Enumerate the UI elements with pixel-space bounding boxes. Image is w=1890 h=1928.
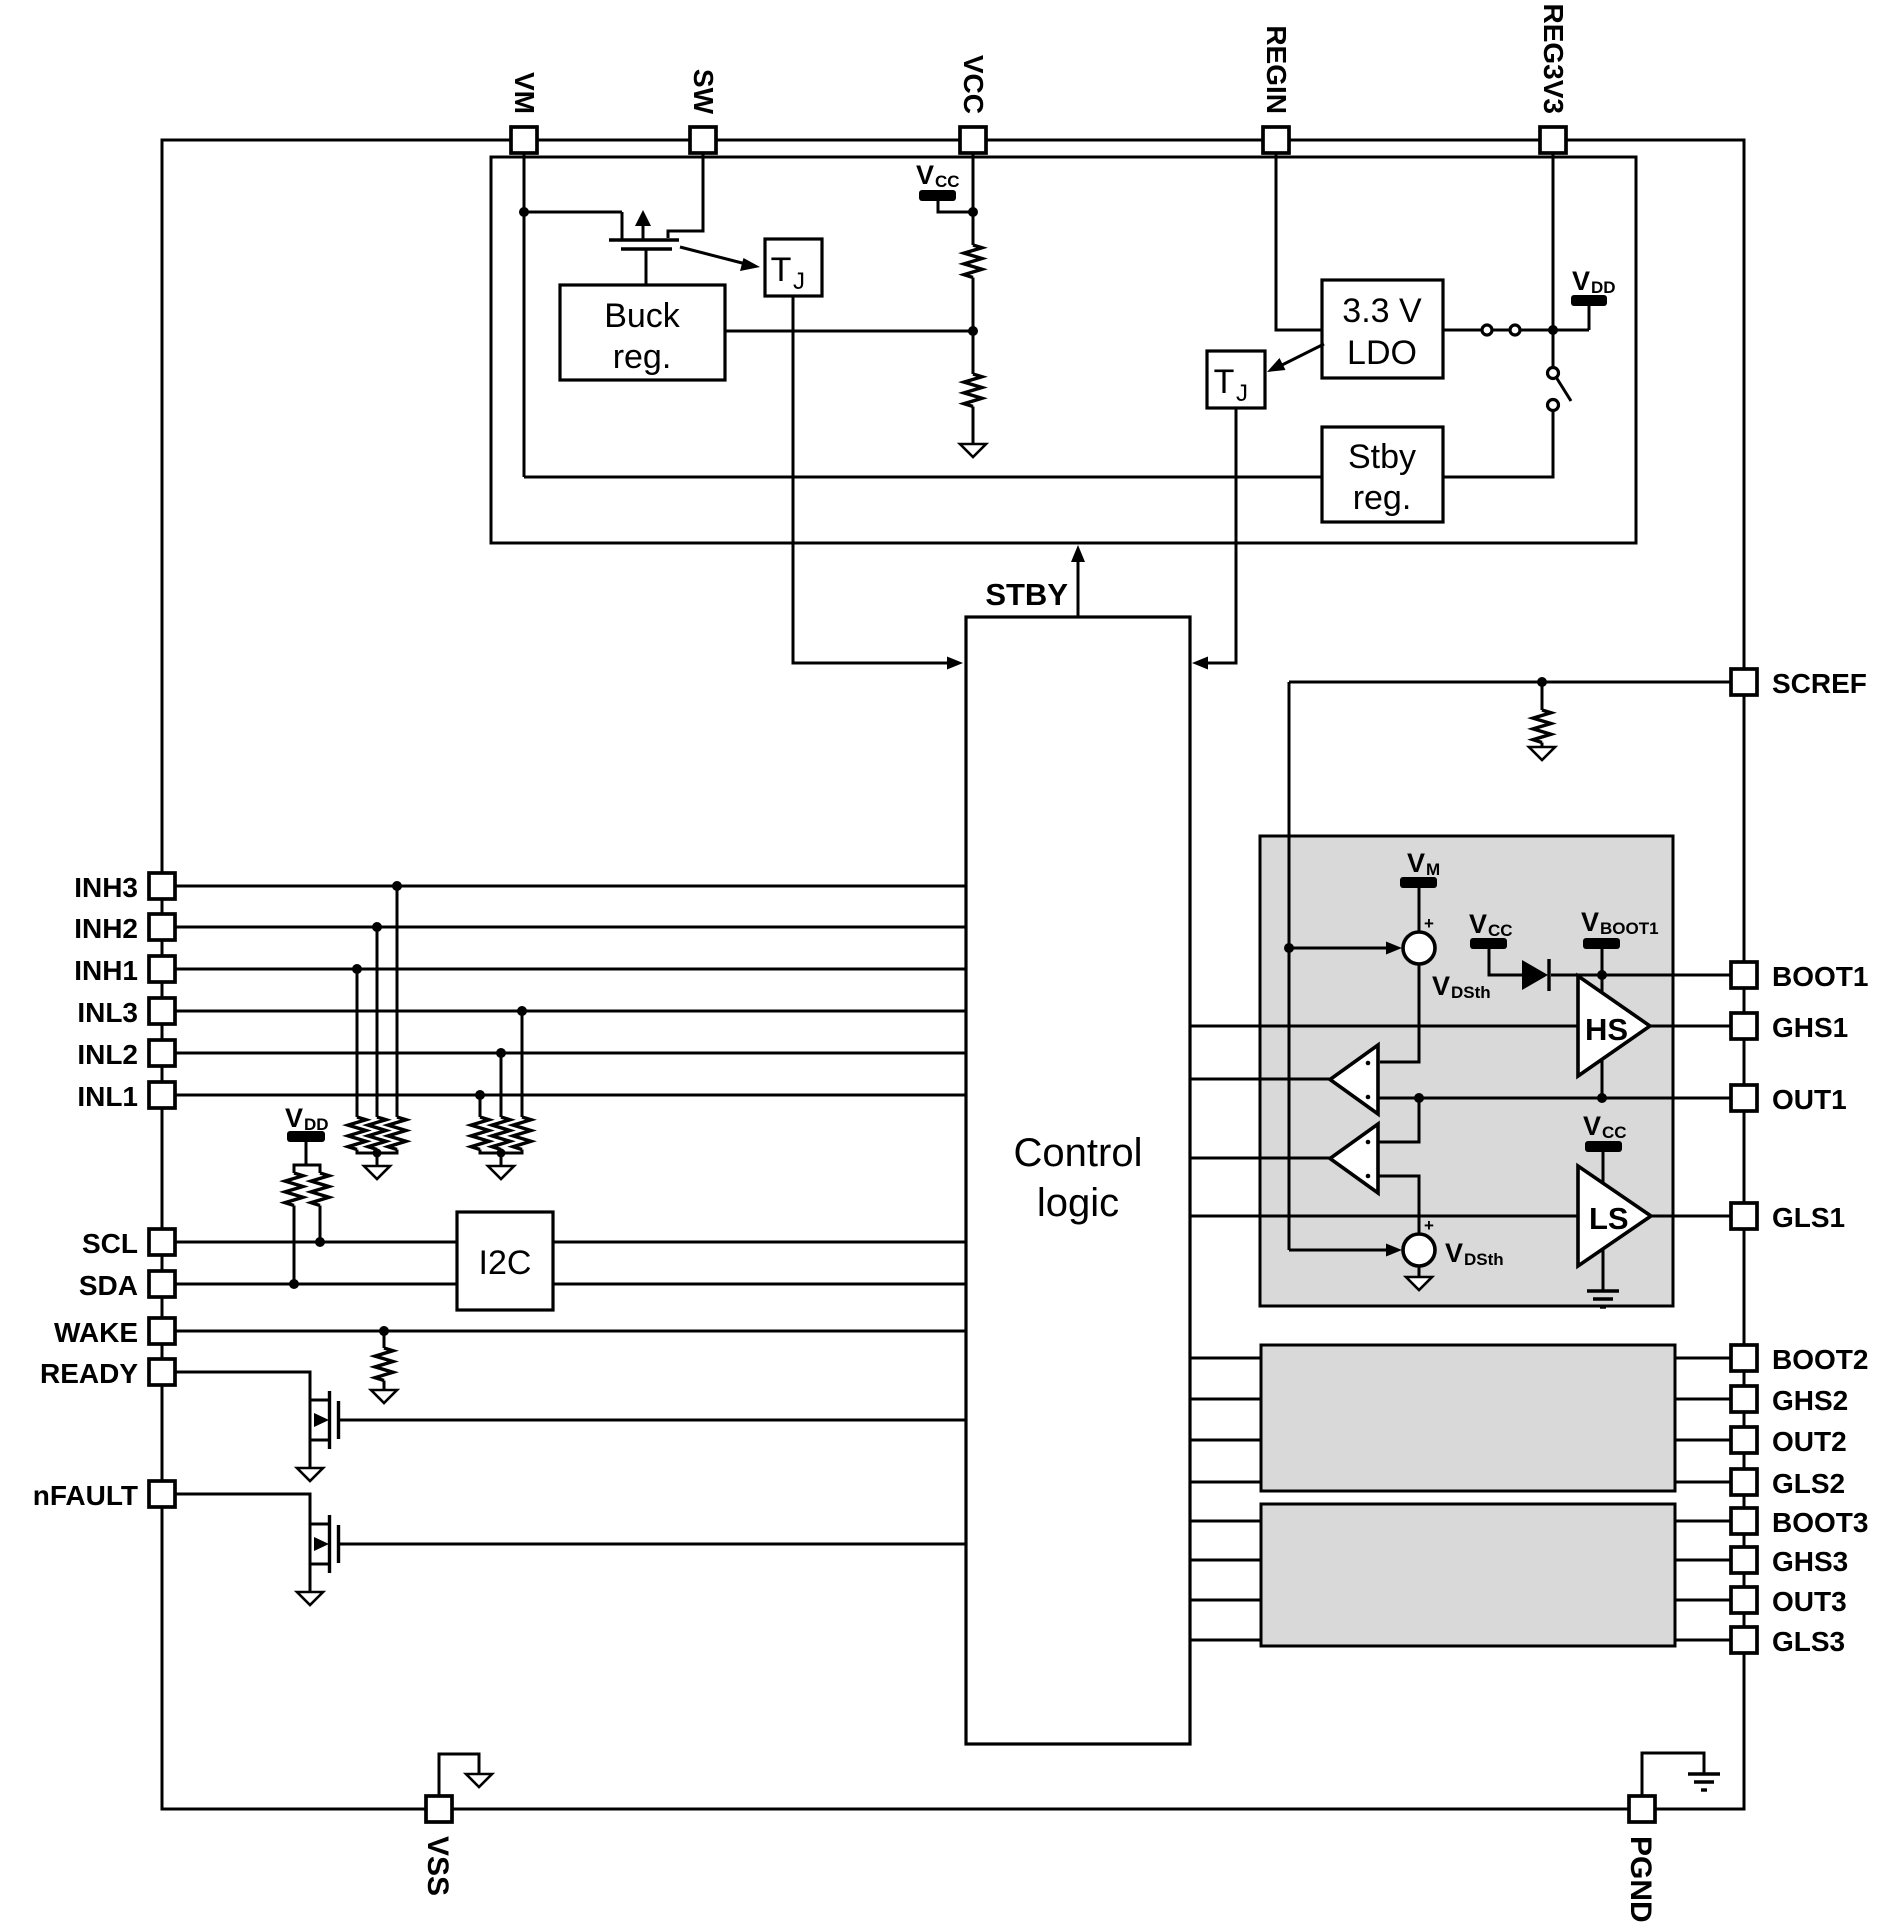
pin BOOT3: [1731, 1508, 1757, 1534]
supply tap VDD (I2C pullups): [285, 1103, 329, 1165]
pin SCREF: [1731, 669, 1757, 695]
supply tap VCC (top): [916, 160, 973, 212]
arrow buck FET to TJ1: [680, 247, 760, 271]
pin INH3: [149, 873, 175, 899]
svg-text:GLS1: GLS1: [1772, 1202, 1845, 1233]
pin REG3V3: [1540, 127, 1566, 153]
svg-text:+: +: [1424, 914, 1434, 933]
pin INH1: [149, 956, 175, 982]
svg-text:GLS2: GLS2: [1772, 1468, 1845, 1499]
wire INL1 to control logic: [175, 1094, 966, 1097]
wire INH resistor tie: [357, 1150, 397, 1154]
wire HS driver to OUT1: [1601, 1050, 1604, 1098]
node REG3V3 junction: [1548, 325, 1558, 335]
svg-text:3.3 V: 3.3 V: [1342, 292, 1422, 330]
pin SDA: [149, 1271, 175, 1297]
wire SDA line: [175, 1283, 966, 1286]
svg-text:Control: Control: [1014, 1131, 1143, 1175]
wire INL3 to control logic: [175, 1010, 966, 1013]
wire LS driver to ground: [1602, 1240, 1605, 1291]
svg-text:T: T: [771, 251, 792, 289]
pin READY: [149, 1359, 175, 1385]
wire WAKE resistor to ground: [383, 1381, 386, 1391]
wire arrow into VDSth low source: [1289, 1244, 1402, 1257]
wire INH2 to control logic: [175, 926, 966, 929]
node SDA pullup junction: [289, 1279, 299, 1289]
node INH3 pulldown tap: [392, 881, 402, 891]
svg-text:VM: VM: [509, 72, 540, 114]
wire SCREF line: [1289, 681, 1732, 684]
block Stby reg.: [1322, 427, 1443, 522]
svg-text:V: V: [285, 1103, 303, 1133]
block 3.3 V LDO: [1322, 280, 1443, 378]
wire WAKE pulldown stub: [383, 1331, 386, 1348]
resistor SCREF: [1533, 710, 1551, 743]
chip boundary: [162, 140, 1744, 1809]
svg-text:V: V: [1581, 907, 1599, 937]
connector circle B: [1510, 325, 1520, 335]
gate driver block phase 3 (gray): [1261, 1504, 1675, 1646]
supply tap VDD (top right): [1571, 266, 1616, 330]
wire HS input line: [1190, 1025, 1578, 1028]
node VCC tap junction: [968, 207, 978, 217]
wire WAKE to control logic: [175, 1330, 966, 1333]
ground READY FET: [297, 1468, 323, 1481]
supply tap VBOOT1: [1581, 907, 1659, 1000]
ground VDSth low: [1406, 1277, 1432, 1290]
wire READY FET gate to control logic: [340, 1419, 966, 1422]
svg-text:V: V: [1432, 971, 1450, 1001]
wire TJ2 to control logic (arrow): [1192, 408, 1236, 670]
pin GHS3: [1731, 1547, 1757, 1573]
wire INL2 drop: [500, 1053, 503, 1117]
driver HS: [1578, 976, 1650, 1076]
svg-text:I2C: I2C: [479, 1244, 532, 1282]
wire VDSth high to comparator1: [1380, 964, 1419, 1062]
wire SCREF sense drop: [1288, 682, 1291, 1250]
wire GHS3 line: [1190, 1559, 1732, 1562]
wire INH3 drop: [396, 886, 399, 1117]
pin OUT1: [1731, 1085, 1757, 1111]
ground INH pulldowns: [364, 1166, 390, 1179]
svg-text:SCL: SCL: [82, 1228, 138, 1259]
pin INH2: [149, 914, 175, 940]
wire divider to ground: [972, 407, 975, 445]
svg-text:Buck: Buck: [604, 297, 681, 335]
ground LS driver (earth): [1587, 1291, 1619, 1307]
wire nFAULT FET gate to control logic: [340, 1543, 966, 1546]
svg-text:nFAULT: nFAULT: [33, 1480, 138, 1511]
node VM-source junction: [519, 207, 529, 217]
ground INL pulldowns: [488, 1166, 514, 1179]
block I2C: [457, 1212, 553, 1310]
svg-text:INH2: INH2: [74, 913, 138, 944]
svg-text:V: V: [1445, 1238, 1463, 1268]
svg-text:OUT2: OUT2: [1772, 1426, 1847, 1457]
svg-text:SW: SW: [688, 69, 719, 115]
wire switch to stby reg output: [1443, 410, 1553, 477]
svg-text:VSS: VSS: [421, 1836, 454, 1896]
wire nFAULT FET source to ground: [309, 1564, 312, 1592]
connector circle A: [1482, 325, 1492, 335]
pin PGND: [1629, 1796, 1655, 1822]
driver LS: [1578, 1166, 1651, 1266]
wire VCC pin down: [972, 153, 975, 245]
svg-text:OUT3: OUT3: [1772, 1586, 1847, 1617]
wire INL tie stub: [500, 1150, 503, 1167]
svg-text:INH1: INH1: [74, 955, 138, 986]
svg-text:M: M: [1426, 860, 1440, 879]
wire divider middle: [972, 278, 975, 375]
wire INL2 to control logic: [175, 1052, 966, 1055]
comparator 1 (VDS high): [1330, 1045, 1378, 1114]
label comparator2 minus: [1366, 1174, 1371, 1179]
pin GLS3: [1731, 1627, 1757, 1653]
ground nFAULT FET: [297, 1592, 323, 1605]
resistor WAKE pulldown: [375, 1348, 393, 1381]
resistor SCL pullup: [311, 1173, 329, 1206]
wire VDSth low to ground: [1418, 1266, 1421, 1277]
wire GLS3 line: [1190, 1639, 1732, 1642]
resistor VCC divider lower: [964, 374, 982, 406]
wire SCL line: [175, 1241, 966, 1244]
ground VCC divider: [960, 444, 986, 457]
node OUT1 HS source: [1597, 1093, 1607, 1103]
wire BOOT1 line: [1551, 974, 1732, 977]
resistor INL2 pulldown: [492, 1117, 510, 1150]
node INH2 pulldown tap: [372, 922, 382, 932]
node OUT1 comparator branch: [1414, 1093, 1424, 1103]
pin VSS: [426, 1796, 452, 1822]
switch standby to REG3V3: [1548, 368, 1572, 411]
wire buck reg output to VCC divider: [725, 330, 973, 333]
svg-text:GHS3: GHS3: [1772, 1546, 1848, 1577]
pin WAKE: [149, 1318, 175, 1344]
wire comparator1 minus input to OUT1: [1378, 1097, 1419, 1100]
svg-text:BOOT2: BOOT2: [1772, 1344, 1868, 1375]
wire BOOT2 line: [1190, 1357, 1732, 1360]
svg-text:CC: CC: [935, 172, 960, 191]
node INH tie: [373, 1149, 382, 1158]
wire REGIN pin to LDO: [1276, 153, 1322, 330]
resistor INH3 pulldown: [388, 1117, 406, 1150]
supply tap VCC (LS driver): [1583, 1111, 1627, 1192]
svg-text:STBY: STBY: [985, 577, 1068, 612]
ground WAKE pulldown: [371, 1390, 397, 1403]
wire GHS2 line: [1190, 1398, 1732, 1401]
svg-text:INH3: INH3: [74, 872, 138, 903]
wire SCL pullup leg: [319, 1206, 322, 1243]
wire INH1 drop: [356, 969, 359, 1117]
svg-text:VCC: VCC: [958, 55, 989, 114]
current source VDSth low: [1403, 1234, 1435, 1266]
block TJ2 thermal sensor: [1207, 351, 1265, 408]
wire SW pin to buck FET drain: [668, 153, 703, 238]
block Control logic: [966, 617, 1190, 1744]
pin GHS1: [1731, 1013, 1757, 1039]
wire INL1 drop: [479, 1095, 482, 1117]
svg-text:V: V: [1583, 1111, 1601, 1141]
wire comparator2 output to control logic: [1190, 1157, 1330, 1160]
svg-text:GHS1: GHS1: [1772, 1012, 1848, 1043]
pin SCL: [149, 1229, 175, 1255]
wire SCREF resistor to ground: [1541, 743, 1544, 748]
svg-text:logic: logic: [1037, 1181, 1119, 1225]
svg-text:J: J: [1236, 380, 1248, 407]
pin INL3: [149, 998, 175, 1024]
svg-text:PGND: PGND: [1624, 1836, 1657, 1923]
svg-text:LS: LS: [1589, 1201, 1629, 1236]
svg-text:SCREF: SCREF: [1772, 668, 1867, 699]
svg-text:HS: HS: [1585, 1012, 1628, 1047]
current source VDSth high: [1403, 932, 1435, 964]
supply tap VCC (bootstrap): [1469, 909, 1522, 975]
ground VSS symbol: [439, 1754, 492, 1796]
transistor READY open-drain FET: [310, 1391, 339, 1449]
node divider mid junction: [968, 326, 978, 336]
transistor nFAULT open-drain FET: [310, 1515, 339, 1573]
node INL1 pulldown tap: [475, 1090, 485, 1100]
wire GLS2 line: [1190, 1481, 1732, 1484]
svg-text:LDO: LDO: [1347, 334, 1417, 372]
wire GLS1 output: [1651, 1215, 1732, 1218]
node INH1 pulldown tap: [352, 964, 362, 974]
block Buck reg.: [560, 285, 725, 380]
svg-text:BOOT3: BOOT3: [1772, 1507, 1868, 1538]
wire INL3 drop: [521, 1011, 524, 1117]
wire READY pin to FET drain: [175, 1372, 310, 1440]
svg-text:V: V: [1572, 266, 1590, 296]
wire INH1 to control logic: [175, 968, 966, 971]
ground PGND symbol (earth): [1642, 1753, 1720, 1796]
svg-text:INL1: INL1: [77, 1081, 138, 1112]
node INL2 pulldown tap: [496, 1048, 506, 1058]
svg-text:OUT1: OUT1: [1772, 1084, 1847, 1115]
node SCL pullup junction: [315, 1237, 325, 1247]
pin SW: [690, 127, 716, 153]
wire READY FET source to ground: [309, 1440, 312, 1468]
svg-text:CC: CC: [1488, 921, 1513, 940]
arrow LDO to TJ2: [1267, 344, 1324, 372]
svg-text:DSth: DSth: [1451, 983, 1491, 1002]
svg-text:BOOT1: BOOT1: [1600, 919, 1659, 938]
wire comparator1 output to control logic: [1190, 1078, 1330, 1081]
label VDSth high: [1432, 971, 1491, 1002]
svg-text:CC: CC: [1602, 1123, 1627, 1142]
wire INH3 to control logic: [175, 885, 966, 888]
pin nFAULT: [149, 1481, 175, 1507]
pin INL1: [149, 1082, 175, 1108]
svg-text:BOOT1: BOOT1: [1772, 961, 1868, 992]
pin BOOT2: [1731, 1345, 1757, 1371]
node INL tie: [497, 1149, 506, 1158]
wire comparator2 plus input from OUT1: [1378, 1098, 1419, 1142]
transistor buck switch FET: [609, 210, 679, 285]
pin OUT2: [1731, 1427, 1757, 1453]
wire OUT3 line: [1190, 1599, 1732, 1602]
wire VM rail to stby reg input: [524, 476, 1322, 479]
svg-text:DSth: DSth: [1464, 1250, 1504, 1269]
svg-text:INL2: INL2: [77, 1039, 138, 1070]
resistor INL3 pulldown: [513, 1117, 531, 1150]
svg-text:+: +: [1424, 1216, 1434, 1235]
wire TJ1 to control logic (arrow): [793, 296, 963, 670]
svg-text:reg.: reg.: [1353, 479, 1412, 517]
svg-text:V: V: [916, 160, 934, 190]
node INL3 pulldown tap: [517, 1006, 527, 1016]
svg-text:REG3V3: REG3V3: [1538, 4, 1569, 115]
pin REGIN: [1263, 127, 1289, 153]
diode bootstrap: [1522, 959, 1549, 991]
node sense to VDSth high: [1284, 943, 1294, 953]
wire SDA pullup leg: [293, 1206, 296, 1285]
svg-text:REGIN: REGIN: [1261, 25, 1292, 114]
svg-text:V: V: [1469, 909, 1487, 939]
label comparator1 plus: [1366, 1061, 1371, 1066]
pin GLS1: [1731, 1203, 1757, 1229]
wire VDD pullup tie: [294, 1165, 320, 1173]
resistor INH2 pulldown: [368, 1117, 386, 1150]
wire comparator2 minus to VDSth low: [1378, 1176, 1419, 1234]
wire OUT2 line: [1190, 1439, 1732, 1442]
svg-text:Stby: Stby: [1348, 438, 1416, 476]
gate driver block phase 2 (gray): [1261, 1345, 1675, 1491]
wire STBY arrow into top box: [1071, 545, 1085, 617]
wire GHS1 output: [1650, 1025, 1732, 1028]
resistor VCC divider upper: [964, 245, 982, 277]
pin OUT3: [1731, 1587, 1757, 1613]
wire INH tie stub: [376, 1150, 379, 1167]
svg-text:GHS2: GHS2: [1772, 1385, 1848, 1416]
node BOOT1 to HS driver: [1597, 970, 1607, 980]
ground SCREF: [1529, 747, 1555, 760]
svg-text:T: T: [1214, 363, 1235, 401]
wire VM to buck FET source: [524, 211, 622, 214]
node SCREF resistor tap: [1537, 677, 1547, 687]
resistor SDA pullup: [285, 1173, 303, 1206]
wire SCREF resistor stub: [1541, 682, 1544, 710]
wire nFAULT pin to FET drain: [175, 1494, 310, 1564]
svg-text:V: V: [1407, 848, 1425, 878]
svg-text:READY: READY: [40, 1358, 138, 1389]
wire arrow into VDSth high source: [1289, 942, 1402, 955]
gate driver block phase 1 (gray): [1260, 836, 1673, 1306]
label VDSth low: [1445, 1238, 1504, 1269]
wire OUT1 line: [1378, 1097, 1732, 1100]
supply tap VM (phase 1): [1400, 848, 1440, 932]
resistor INH1 pulldown: [348, 1117, 366, 1150]
label comparator2 plus: [1366, 1140, 1371, 1145]
svg-text:SDA: SDA: [79, 1270, 138, 1301]
svg-text:DD: DD: [1591, 278, 1616, 297]
wire LS input line: [1190, 1215, 1578, 1218]
svg-text:WAKE: WAKE: [54, 1317, 138, 1348]
wire INH2 drop: [376, 927, 379, 1117]
wire LDO output to REG3V3 node: [1443, 329, 1589, 332]
label comparator1 minus: [1366, 1095, 1371, 1100]
pin GHS2: [1731, 1386, 1757, 1412]
svg-text:J: J: [793, 268, 805, 295]
wire REG3V3 pin down: [1552, 153, 1555, 366]
wire VM pin down: [523, 153, 526, 477]
comparator 2 (VDS low): [1330, 1124, 1378, 1193]
wire INL resistor tie: [480, 1150, 522, 1154]
svg-text:INL3: INL3: [77, 997, 138, 1028]
pin INL2: [149, 1040, 175, 1066]
block TJ1 thermal sensor: [765, 239, 822, 296]
svg-text:GLS3: GLS3: [1772, 1626, 1845, 1657]
pin BOOT1: [1731, 962, 1757, 988]
top regulator section box: [491, 157, 1636, 543]
pin VM: [511, 127, 537, 153]
resistor INL1 pulldown: [471, 1117, 489, 1150]
wire BOOT3 line: [1190, 1520, 1732, 1523]
svg-text:reg.: reg.: [613, 338, 672, 376]
pin GLS2: [1731, 1469, 1757, 1495]
pin VCC: [960, 127, 986, 153]
node WAKE pulldown tap: [379, 1326, 389, 1336]
